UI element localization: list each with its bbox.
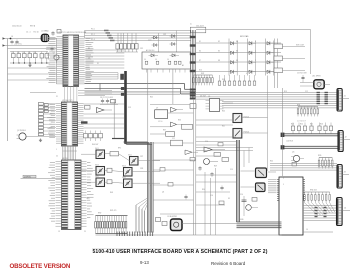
wire faint rail: [92, 247, 232, 249]
resistor R4: [23, 52, 27, 64]
svg-text:31: 31: [56, 96, 58, 98]
wire U1 left feeds: [8, 68, 57, 80]
svg-text:RP2: RP2: [118, 148, 121, 150]
net label text dashes: [49, 104, 54, 135]
wire buzzer to bus: [182, 223, 237, 225]
inductor L1: [41, 30, 49, 42]
wire top feed: [8, 38, 42, 40]
svg-text:U7: U7: [156, 108, 158, 110]
wire IC pin stubs: [57, 36, 85, 84]
wire misc mid: [196, 142, 253, 168]
svg-text:R19: R19: [284, 91, 287, 93]
switch S5: [249, 51, 256, 55]
svg-text:ISO2: ISO2: [128, 154, 132, 156]
resistor R10: [116, 44, 119, 52]
resistor R52: [168, 183, 173, 187]
wire J4 tail: [342, 210, 350, 212]
diode CR6 inside A1: [170, 54, 180, 57]
gate U8B: [171, 122, 184, 127]
wire long net left: [21, 175, 63, 178]
wire bus B vertical: [148, 69, 173, 233]
svg-text:ISO6: ISO6: [122, 177, 126, 179]
ground: [39, 139, 42, 142]
bus entry box top: [190, 27, 206, 33]
resistor R13: [127, 44, 130, 52]
diode CR3: [170, 35, 177, 38]
optocoupler ISO2: [130, 157, 139, 166]
svg-text:U6: U6: [208, 96, 210, 98]
svg-text:R37: R37: [163, 130, 166, 132]
resistor R11: [120, 44, 123, 52]
svg-text:R48: R48: [110, 192, 113, 194]
labels opto rows: [95, 148, 132, 179]
svg-text:Q3: Q3: [150, 185, 152, 187]
resistor R17: [274, 44, 305, 49]
svg-text:R49: R49: [214, 166, 217, 168]
wire keypad column lines: [229, 39, 278, 89]
svg-text:RN7 470: RN7 470: [110, 210, 116, 212]
resistor R30: [292, 163, 297, 166]
resistor R53: [219, 201, 224, 205]
ground: [28, 64, 31, 67]
capacitor C5a: [50, 47, 53, 52]
svg-text:10: 10: [167, 59, 169, 61]
svg-text:Q2 2N3904: Q2 2N3904: [17, 130, 26, 132]
relay K1: [256, 168, 267, 178]
net label boxes column 2: [44, 104, 48, 113]
svg-text:J5: J5: [190, 24, 192, 26]
wire Q2 to U2: [32, 136, 56, 138]
resistor R40a: [162, 222, 167, 226]
capacitor C6: [101, 99, 104, 104]
wire opto feeds: [224, 76, 268, 172]
switch S8: [249, 60, 256, 64]
resistor R2a: [57, 30, 61, 34]
resistor R43: [222, 158, 229, 162]
wire J4 pads: [315, 207, 327, 217]
resistor R39: [156, 218, 161, 222]
resistor R55: [218, 143, 223, 146]
resistor R34: [107, 168, 112, 172]
wire relay feeds: [241, 171, 277, 187]
wire left link y92: [30, 92, 56, 94]
resistor network RN2: [193, 75, 214, 85]
svg-text:R36: R36: [178, 120, 181, 122]
resistors inside A1: [144, 59, 184, 67]
pin name labels U1: [46, 38, 94, 83]
svg-text:U6 7407: U6 7407: [200, 96, 206, 98]
svg-text:R46 R47: R46 R47: [92, 144, 98, 146]
svg-text:S7: S7: [199, 60, 201, 62]
svg-text:S4: S4: [199, 51, 201, 53]
svg-text:1 2 3 4 5 6 7: 1 2 3 4 5 6 7: [297, 121, 306, 123]
svg-text:ISO5: ISO5: [95, 176, 99, 178]
wire diode links: [148, 31, 177, 53]
top annotation row: [12, 25, 36, 28]
resistor R7: [40, 52, 44, 64]
connector J2: [338, 131, 343, 152]
resistor R33: [110, 152, 119, 156]
capacitor C3: [10, 40, 13, 45]
wire U2 right exits: [84, 104, 125, 128]
IC U7 box: [155, 108, 168, 119]
matrix band bottom pads: [190, 89, 196, 100]
resistor R15: [135, 44, 138, 52]
wire left vertical rail: [7, 39, 9, 142]
wire mid horizontal group upper: [85, 50, 125, 68]
wire top return line: [196, 30, 311, 75]
IC U2: [62, 102, 78, 146]
svg-text:1: 1: [255, 41, 256, 43]
wire keypad row lines: [196, 43, 281, 72]
svg-text:X1: X1: [97, 63, 99, 65]
svg-text:LS1 SPKR: LS1 SPKR: [312, 76, 321, 78]
switch S2: [249, 41, 256, 45]
svg-text:R9: R9: [88, 48, 90, 50]
svg-text:P1.0: P1.0: [91, 29, 95, 31]
svg-text:R23: R23: [291, 124, 294, 126]
svg-text:R50: R50: [202, 189, 205, 191]
LCD module DS1: [279, 177, 303, 235]
svg-text:0: 0: [246, 73, 247, 75]
svg-text:B1 BUZZER: B1 BUZZER: [168, 216, 178, 218]
resistor row R23-R29: [291, 123, 332, 135]
svg-text:5: 5: [283, 184, 284, 186]
capacitor C18: [220, 186, 223, 191]
svg-text:C13: C13: [128, 107, 131, 109]
transistor Q1: [53, 53, 60, 64]
svg-text:RN5: RN5: [318, 155, 321, 157]
svg-text:U4 PIO: U4 PIO: [62, 158, 68, 160]
svg-text:CR8: CR8: [140, 168, 143, 170]
wire thick pair upper: [282, 134, 339, 136]
svg-text:13: 13: [58, 231, 60, 233]
svg-text:U1 87C51 MICROCONTROLLER: U1 87C51 MICROCONTROLLER: [58, 32, 87, 34]
svg-text:2: 2: [255, 51, 256, 53]
svg-text:R45: R45: [150, 97, 153, 99]
resistor R31: [85, 106, 91, 110]
wire bus U1 to keypad columns: [85, 30, 191, 42]
svg-text:S6: S6: [236, 51, 238, 53]
svg-text:14: 14: [306, 229, 308, 231]
switch S4: [231, 51, 238, 55]
speaker LS1: [314, 80, 324, 89]
wire bus to J3: [270, 164, 337, 171]
svg-text:C12: C12: [305, 91, 308, 93]
IC U4: [62, 160, 82, 230]
wire x114 drop: [112, 100, 125, 139]
diode CR5 inside A1: [149, 54, 159, 57]
svg-text:R41: R41: [222, 126, 225, 128]
wire vertical drops to resistor pack: [118, 33, 136, 44]
svg-text:40: 40: [84, 32, 86, 34]
svg-text:RN2: RN2: [201, 73, 204, 75]
svg-text:S5: S5: [218, 51, 220, 53]
resistor R12: [124, 44, 127, 52]
svg-text:C5 R22 CR9: C5 R22 CR9: [297, 73, 307, 75]
diode CR1: [152, 36, 159, 39]
wire stepped bus upper: [85, 84, 197, 91]
svg-text:ISO3: ISO3: [95, 164, 99, 166]
resistor network RN6: [304, 192, 331, 203]
capacitor cluster C10: [240, 194, 258, 216]
svg-text:RN4: RN4: [297, 105, 300, 107]
svg-text:A1: A1: [182, 64, 184, 67]
resistor R2: [12, 52, 16, 64]
IC U1: [63, 35, 79, 87]
resistor R8: [45, 52, 49, 64]
wire right vertical pair: [194, 99, 196, 235]
svg-text:SW COM: SW COM: [296, 45, 304, 47]
wire bottom rail: [96, 234, 282, 236]
switch S12: [267, 70, 274, 74]
wire fan to J4: [305, 203, 335, 216]
optocoupler ISO7: [233, 114, 249, 123]
pin name labels U2: [47, 105, 55, 138]
svg-text:10: 10: [155, 59, 157, 61]
gate U3A: [97, 108, 113, 113]
junction: [10, 38, 12, 40]
junction pads left: [281, 133, 285, 150]
svg-text:S8: S8: [218, 60, 220, 62]
wire A1 pin stubs bottom: [147, 69, 185, 73]
wire bead to U1: [49, 38, 57, 40]
svg-text:C11: C11: [172, 138, 175, 140]
switch S1: [231, 41, 238, 45]
diode CR4: [170, 43, 177, 46]
wire row1: [81, 154, 160, 161]
wire IC pin stubs: [56, 161, 87, 226]
svg-text:S3: S3: [236, 41, 238, 43]
switch S11: [249, 70, 256, 74]
wire exits above U2: [78, 91, 112, 96]
labels mid cluster: [158, 120, 181, 141]
wire LCD to J4 bus: [303, 206, 337, 221]
svg-text:C10: C10: [240, 194, 243, 196]
switch S9: [267, 60, 274, 64]
optocoupler ISO4: [124, 168, 133, 177]
svg-text:D2: D2: [228, 198, 230, 200]
wire bus B joins: [136, 198, 148, 233]
svg-text:REV A: REV A: [30, 25, 36, 28]
svg-text:ISO1: ISO1: [95, 148, 99, 150]
svg-text:1: 1: [283, 178, 284, 180]
svg-text:C14: C14: [205, 141, 208, 143]
wire feed 2: [8, 45, 57, 47]
resistor R5: [28, 52, 32, 64]
switch S10: [231, 70, 238, 74]
svg-text:204-1562-00: 204-1562-00: [12, 26, 22, 28]
svg-text:L1 BEAD: L1 BEAD: [41, 30, 49, 33]
wire U1 to U2 vertical links: [65, 87, 77, 102]
IC U6 aux box: [190, 104, 196, 109]
wire right column vertical: [282, 88, 284, 176]
svg-text:R24: R24: [300, 124, 303, 126]
svg-text:C1 .1: C1 .1: [26, 32, 31, 34]
connector J4: [337, 198, 343, 226]
switch S7: [231, 60, 238, 64]
wire bus A elbow: [124, 142, 152, 145]
labels misc: [200, 96, 225, 128]
hybrid network box A1: [142, 52, 191, 69]
svg-text:S9: S9: [236, 60, 238, 62]
resistor R42: [214, 153, 221, 157]
wire group to bus A pad: [85, 73, 124, 80]
LCD pin ticks: [277, 180, 305, 201]
transistor Q2: [17, 130, 33, 140]
capacitor C7: [106, 99, 109, 104]
capacitor C2: [51, 31, 54, 36]
svg-text:20: 20: [56, 156, 58, 158]
wire bus C vertical: [237, 140, 240, 222]
wire under resistor pack: [116, 51, 138, 53]
svg-text:Q4: Q4: [162, 192, 164, 194]
svg-text:ISO4: ISO4: [122, 165, 126, 167]
resistor R35: [107, 180, 112, 184]
net pad: [81, 121, 88, 123]
svg-text:J6: J6: [11, 36, 13, 38]
optocoupler ISO5: [96, 178, 105, 187]
svg-text:P1.2: P1.2: [91, 34, 95, 36]
diode CR2: [152, 44, 159, 47]
connector J1: [337, 89, 342, 112]
connector J6 entry stubs: [3, 37, 8, 47]
svg-text:R26: R26: [320, 124, 323, 126]
wire mid-bottom mesh: [153, 120, 236, 235]
svg-text:RN6 10K: RN6 10K: [310, 190, 318, 192]
wire J3 tail: [342, 174, 349, 176]
resistor network RN7: [95, 213, 128, 234]
switch S3: [267, 41, 274, 45]
svg-text:R1 10: R1 10: [34, 32, 39, 34]
svg-text:R44: R44: [270, 161, 273, 163]
resistor R18: [274, 56, 305, 61]
resistor R3: [17, 52, 21, 64]
svg-text:C8 C9 Y2 11.0592: C8 C9 Y2 11.0592: [100, 97, 113, 99]
connector J3: [337, 165, 342, 189]
crystal Y2: [100, 97, 118, 105]
optocoupler ISO1: [96, 150, 105, 159]
resistor R6: [34, 52, 38, 64]
svg-text:1: 1: [56, 149, 57, 151]
resistor network RN3: [218, 75, 256, 85]
misc reference labels: [56, 24, 323, 234]
svg-text:RN7: RN7: [98, 213, 101, 215]
resistor R14: [131, 44, 134, 52]
resistor R19: [274, 68, 305, 73]
svg-text:S1: S1: [199, 41, 201, 43]
wire bus to J1: [196, 93, 337, 108]
transistor Q5: [291, 152, 304, 162]
svg-text:CR7: CR7: [140, 156, 143, 158]
gate U5A: [204, 147, 225, 152]
capacitor C5: [297, 73, 307, 83]
wire bus A vertical band: [121, 71, 127, 144]
svg-text:25: 25: [84, 231, 86, 233]
resistor row under U2: [84, 131, 103, 142]
svg-text:LCD BUS: LCD BUS: [286, 141, 293, 143]
wire keypad column band: [191, 30, 196, 99]
wire J1 tail: [342, 98, 349, 100]
svg-text:+5V VCC: +5V VCC: [14, 44, 23, 46]
wire feed 3: [8, 48, 57, 50]
switch S6: [267, 51, 274, 55]
IC U6: [206, 96, 224, 112]
svg-text:RN3: RN3: [222, 79, 225, 81]
svg-text:CR1: CR1: [140, 48, 143, 50]
resistor R51: [160, 168, 165, 172]
capacitor C20: [210, 172, 213, 177]
svg-text:C3: C3: [88, 58, 90, 60]
svg-text:CR2: CR2: [163, 34, 166, 36]
wire bus pads: [317, 92, 328, 104]
wire group lower mid: [85, 91, 197, 94]
svg-text:C15: C15: [230, 169, 233, 171]
wire U2 to U4 vertical links: [63, 146, 78, 160]
resistor R36: [182, 124, 193, 129]
wire stepped bus lower: [85, 88, 197, 94]
resistor network RN4: [297, 107, 318, 117]
wire IC pin stubs: [56, 103, 84, 143]
capacitor C19: [198, 166, 201, 171]
resistor network RN5: [318, 158, 333, 169]
svg-text:S2: S2: [218, 41, 220, 43]
wire row2: [81, 171, 160, 172]
wire J2 tail: [343, 139, 350, 141]
svg-text:S10: S10: [199, 70, 202, 72]
capacitor C17: [184, 195, 187, 200]
svg-text:Q5: Q5: [292, 152, 294, 154]
optocoupler ISO8: [233, 129, 249, 139]
gate U8A: [171, 107, 184, 112]
pin name labels U4: [48, 163, 94, 222]
svg-text:3: 3: [255, 60, 256, 62]
svg-text:R25: R25: [310, 124, 313, 126]
wire resistor row rail top: [10, 51, 48, 53]
buzzer B1: [168, 216, 183, 231]
svg-text:7805: 7805: [86, 198, 90, 200]
svg-text:DISP EN: DISP EN: [24, 176, 32, 178]
wire resistor row rail bottom: [10, 62, 50, 64]
wire mid cluster links: [150, 105, 194, 144]
optocoupler ISO3: [96, 167, 105, 176]
svg-text:1C 10: 1C 10: [158, 121, 162, 123]
resistor R37: [166, 132, 175, 137]
relay K2: [256, 183, 266, 192]
wire speaker leads: [300, 83, 330, 87]
wire row3: [81, 182, 160, 183]
transistor Q6: [204, 159, 219, 165]
svg-text:R40: R40: [222, 111, 225, 113]
wire bus C elbow right: [237, 222, 282, 228]
capacitor C4: [15, 40, 18, 45]
resistor R38: [171, 140, 183, 146]
resistor R54: [190, 158, 195, 161]
wire LCD left feeds: [268, 180, 277, 193]
svg-text:P1.4: P1.4: [91, 39, 95, 41]
wire LCD bottom right: [303, 231, 333, 233]
wire thick pair lower: [282, 146, 339, 148]
optocoupler ISO6: [124, 179, 133, 188]
svg-text:KEY PAD: KEY PAD: [240, 35, 249, 38]
gate U5B: [185, 150, 198, 155]
svg-text:10: 10: [144, 59, 146, 61]
bottom rail pads: [117, 232, 153, 237]
net label boxes column: [38, 103, 56, 136]
keypad entry pads: [190, 36, 196, 72]
wire U1 left rail: [56, 39, 58, 85]
